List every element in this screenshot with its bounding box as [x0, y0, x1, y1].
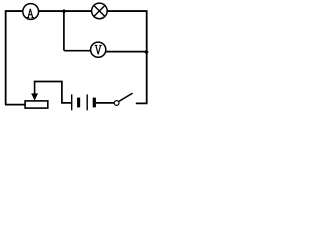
battery B1 — [72, 94, 96, 110]
wire — [107, 11, 147, 103]
wire — [39, 10, 91, 12]
switch S1 — [114, 93, 132, 105]
wire — [64, 11, 91, 50]
wire — [106, 51, 147, 53]
wire — [5, 104, 26, 106]
rheostat R1 — [25, 82, 48, 109]
wire — [6, 11, 23, 105]
node junction top — [62, 9, 66, 13]
lamp L1 — [92, 3, 108, 19]
wire — [34, 82, 71, 103]
wire — [96, 102, 114, 104]
ammeter A1 — [23, 4, 39, 20]
node junction right — [144, 50, 148, 54]
voltmeter V1 — [91, 42, 106, 57]
